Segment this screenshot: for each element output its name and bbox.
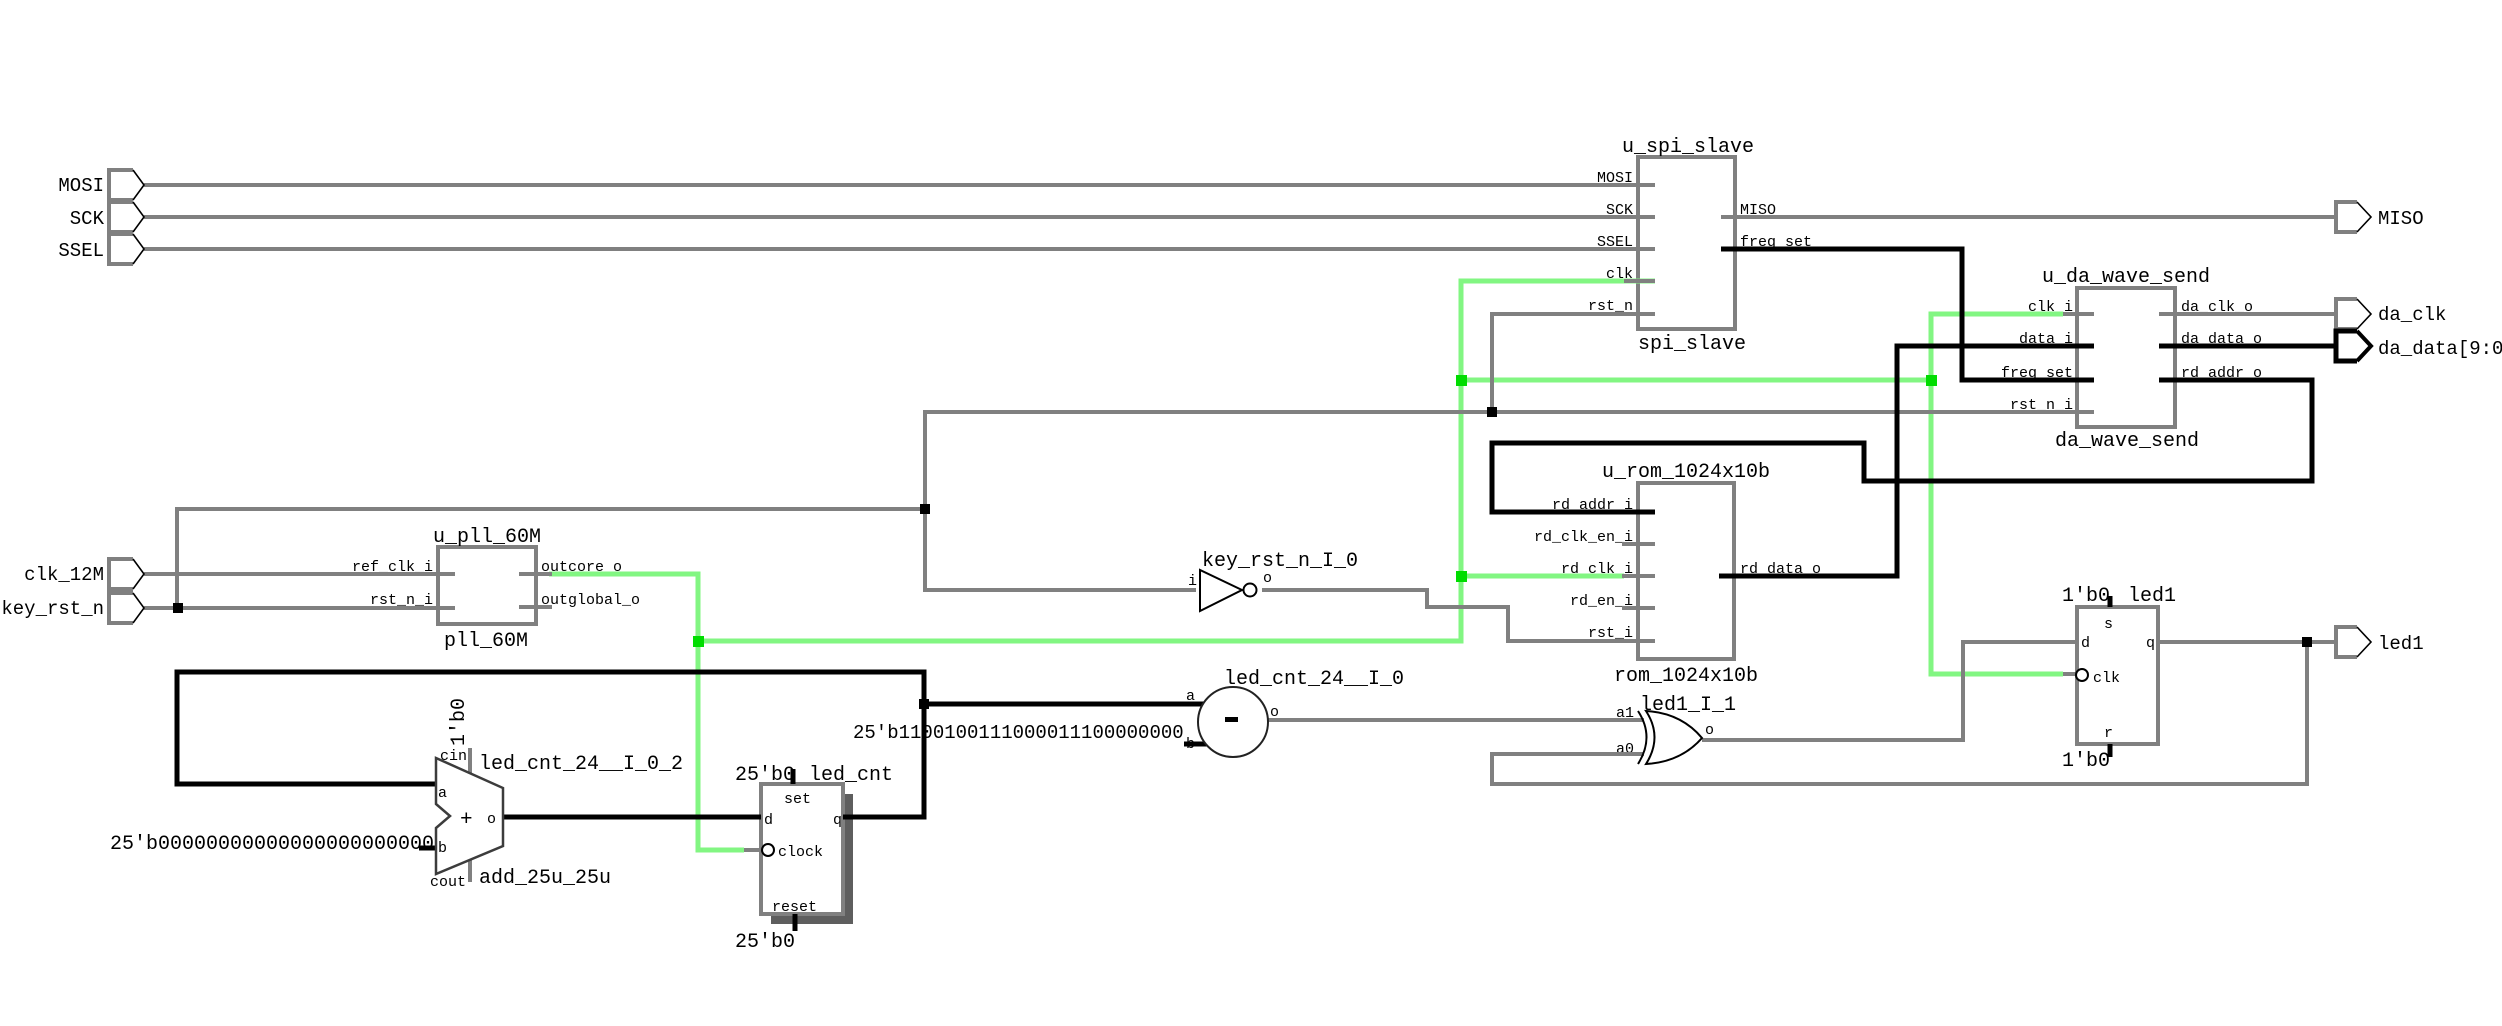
adder add_25u_25u body bbox=[436, 758, 503, 874]
clock wedge circle led1 bbox=[2076, 669, 2088, 681]
wire key_rst_n branch to spi rst_n bbox=[1492, 314, 1655, 412]
svg-text:o: o bbox=[1263, 570, 1272, 587]
wire clk net branch to led1 clk bbox=[1931, 380, 2063, 674]
module U1 u_spi_slave bbox=[1638, 157, 1735, 329]
input port SSEL bbox=[109, 234, 144, 264]
svg-text:u_rom_1024x10b: u_rom_1024x10b bbox=[1602, 461, 1770, 484]
wire spi clk stub bbox=[1624, 279, 1655, 283]
wire adder cout stub bbox=[468, 855, 472, 882]
comparator minus sign bbox=[1225, 717, 1238, 722]
wire clk net branch to rom rd_clk_i bbox=[1461, 574, 1624, 579]
output port da_clk bbox=[2336, 299, 2371, 329]
output port MISO bbox=[2336, 202, 2371, 232]
wire pll outcore_o stub bbox=[519, 572, 552, 576]
svg-text:MISO: MISO bbox=[2378, 208, 2424, 230]
comparator led_cnt_24__I_0 circle bbox=[1198, 687, 1268, 757]
label title u_spi_slave bbox=[1622, 136, 1754, 159]
wire rom rd_clk_en_i stub bbox=[1622, 542, 1655, 546]
svg-text:SCK: SCK bbox=[70, 208, 105, 230]
svg-text:outglobal_o: outglobal_o bbox=[541, 592, 640, 609]
svg-text:o: o bbox=[1705, 722, 1714, 739]
wire SSEL bbox=[144, 247, 1655, 251]
wire key_rst_n riser to spi and da bbox=[925, 412, 2094, 509]
svg-text:+: + bbox=[460, 809, 473, 832]
svg-text:clk: clk bbox=[2093, 670, 2120, 687]
stub register set constant bbox=[791, 769, 796, 784]
svg-text:cout: cout bbox=[430, 874, 466, 891]
svg-text:spi_slave: spi_slave bbox=[1638, 333, 1746, 356]
label constant 1'b0 rotated at adder cin bbox=[448, 698, 471, 746]
wire clk_12M to pll ref_clk_i bbox=[144, 572, 455, 576]
svg-text:o: o bbox=[487, 811, 496, 828]
svg-text:1'b0: 1'b0 bbox=[2062, 750, 2110, 773]
output port da_data bus bbox=[2336, 331, 2371, 361]
svg-text:clk_12M: clk_12M bbox=[24, 564, 104, 586]
pin labels led_cnt register bbox=[764, 791, 842, 916]
label title led_cnt_24__I_0_2 bbox=[479, 753, 683, 776]
input port key_rst_n bbox=[109, 593, 144, 623]
svg-text:led_cnt_24__I_0_2: led_cnt_24__I_0_2 bbox=[479, 753, 683, 776]
svg-text:cin: cin bbox=[440, 748, 467, 765]
pin labels adder bbox=[430, 748, 496, 891]
wire rom rd_clk_i stub bbox=[1622, 574, 1655, 578]
svg-text:add_25u_25u: add_25u_25u bbox=[479, 867, 611, 890]
junction clk green mid-north bbox=[1456, 375, 1467, 386]
input port MOSI bbox=[109, 170, 144, 200]
bus rd_data from rom to da data_i bbox=[1719, 346, 2094, 576]
svg-text:i: i bbox=[1188, 573, 1197, 590]
svg-text:q: q bbox=[2146, 635, 2155, 652]
label type add_25u_25u bbox=[479, 867, 611, 890]
pin labels da_wave_send left bbox=[2001, 299, 2073, 414]
svg-text:pll_60M: pll_60M bbox=[444, 630, 528, 653]
label constant 25'b0000000000000000000000001 bbox=[110, 833, 458, 856]
bus freq_set from spi to da_wave_send bbox=[1721, 249, 2094, 380]
inverter bubble bbox=[1244, 584, 1257, 597]
svg-text:u_da_wave_send: u_da_wave_send bbox=[2042, 266, 2210, 289]
svg-text:da_data[9:0]: da_data[9:0] bbox=[2378, 338, 2502, 360]
svg-text:b: b bbox=[438, 840, 447, 857]
svg-text:rd_clk_en_i: rd_clk_en_i bbox=[1534, 529, 1633, 546]
wire led1 clk stub bbox=[2063, 672, 2077, 676]
bus adder output to register d bbox=[503, 815, 761, 820]
output port led1 bbox=[2336, 627, 2371, 657]
label net led1 above ff bbox=[2128, 585, 2176, 608]
wire inverter output to rom rst_i bbox=[1262, 590, 1655, 641]
label constant 1'b0 above led1 ff bbox=[2062, 585, 2110, 608]
module U2 u_da_wave_send bbox=[2077, 288, 2175, 427]
wire led1 q to port bbox=[2158, 640, 2336, 644]
bus led_cnt q feedback loop bbox=[177, 672, 924, 817]
svg-text:rom_1024x10b: rom_1024x10b bbox=[1614, 665, 1758, 688]
stub led1 s constant bbox=[2108, 596, 2113, 607]
label title u_pll_60M bbox=[433, 526, 541, 549]
wire rom rd_en_i stub bbox=[1622, 606, 1655, 610]
flip-flop led1 bbox=[2077, 607, 2158, 744]
pin labels rom left bbox=[1534, 497, 1633, 642]
svg-text:u_spi_slave: u_spi_slave bbox=[1622, 136, 1754, 159]
wire adder cin stub bbox=[468, 748, 472, 775]
junction key_rst_n east bbox=[1487, 407, 1497, 417]
wire key_rst_n branch north bbox=[177, 509, 925, 608]
stub led1 r constant bbox=[2108, 744, 2113, 757]
junction led_cnt feedback bbox=[919, 699, 929, 709]
label title key_rst_n_I_0 bbox=[1202, 550, 1358, 573]
wire clk net from pll outcore_o bbox=[549, 574, 744, 850]
bus da_data_o to port bbox=[2159, 344, 2336, 349]
pin labels spi_slave left bbox=[1588, 170, 1633, 315]
label instance led_cnt bbox=[809, 764, 893, 787]
svg-text:led1: led1 bbox=[2378, 633, 2424, 655]
label type da_wave_send bbox=[2055, 430, 2199, 453]
label title led1_I_1 bbox=[1640, 694, 1736, 717]
bus comparator b constant stub bbox=[1184, 742, 1207, 747]
svg-text:clock: clock bbox=[778, 844, 823, 861]
junction clk green west bbox=[693, 636, 704, 647]
label title u_da_wave_send bbox=[2042, 266, 2210, 289]
junction key_rst_n mid bbox=[920, 504, 930, 514]
bus led_cnt to comparator a bbox=[924, 702, 1207, 707]
pin labels pll right bbox=[541, 559, 640, 609]
wire da_clk_o to port bbox=[2159, 312, 2336, 316]
label constant 25'b0 above led_cnt bbox=[735, 764, 795, 787]
bus adder b constant stub bbox=[419, 846, 437, 851]
port name labels right bbox=[2378, 208, 2502, 655]
svg-text:key_rst_n: key_rst_n bbox=[1, 598, 104, 620]
stub register reset constant bbox=[793, 914, 798, 931]
junction clk green mid-south bbox=[1456, 571, 1467, 582]
svg-text:1'b0: 1'b0 bbox=[448, 698, 471, 746]
wire clk net long horizontal to x1461 bbox=[698, 281, 1655, 641]
svg-text:SSEL: SSEL bbox=[58, 240, 104, 262]
label type pll_60M bbox=[444, 630, 528, 653]
clock wedge circle led_cnt bbox=[762, 844, 774, 856]
svg-text:s: s bbox=[2104, 616, 2113, 633]
wire key_rst_n to pll rst_n_i bbox=[144, 606, 455, 610]
label constant 25'b1100100111000011100000000 bbox=[853, 722, 1184, 744]
svg-text:d: d bbox=[764, 812, 773, 829]
pin labels xor bbox=[1616, 705, 1714, 758]
svg-text:a: a bbox=[438, 785, 447, 802]
svg-text:led1: led1 bbox=[2128, 585, 2176, 608]
junction led1 q bbox=[2302, 637, 2312, 647]
wire clk net branch east bbox=[1461, 314, 2063, 380]
pin labels spi_slave right bbox=[1740, 202, 1812, 251]
inverter key_rst_n_I_0 triangle bbox=[1200, 570, 1242, 611]
svg-text:set: set bbox=[784, 791, 811, 808]
pin labels da_wave_send right bbox=[2181, 299, 2262, 382]
xor gate led1_I_1 bbox=[1638, 711, 1702, 764]
label type rom_1024x10b bbox=[1614, 665, 1758, 688]
wire MOSI bbox=[144, 183, 1655, 187]
input port SCK bbox=[109, 202, 144, 232]
svg-text:1'b0: 1'b0 bbox=[2062, 585, 2110, 608]
module U3 u_rom_1024x10b bbox=[1638, 483, 1734, 659]
register led_cnt shadow bbox=[771, 794, 853, 924]
svg-text:25'b0: 25'b0 bbox=[735, 931, 795, 954]
wire key_rst_n branch to inverter input bbox=[925, 509, 1196, 590]
label type spi_slave bbox=[1638, 333, 1746, 356]
svg-text:25'b0: 25'b0 bbox=[735, 764, 795, 787]
svg-text:u_pll_60M: u_pll_60M bbox=[433, 526, 541, 549]
pin labels led1 ff bbox=[2081, 616, 2155, 742]
svg-text:da_wave_send: da_wave_send bbox=[2055, 430, 2199, 453]
junction key_rst_n at port bbox=[173, 603, 183, 613]
pin labels inverter bbox=[1188, 570, 1272, 590]
wire pll outglobal_o stub bbox=[519, 605, 552, 609]
bus rd_addr from da to rom bbox=[1492, 380, 2312, 512]
svg-text:d: d bbox=[2081, 635, 2090, 652]
svg-text:da_clk: da_clk bbox=[2378, 304, 2446, 326]
label constant 25'b0 below led_cnt bbox=[735, 931, 795, 954]
svg-text:q: q bbox=[833, 812, 842, 829]
wire SCK bbox=[144, 215, 1655, 219]
label title u_rom_1024x10b bbox=[1602, 461, 1770, 484]
pin labels comparator bbox=[1186, 688, 1279, 753]
svg-text:MOSI: MOSI bbox=[58, 175, 104, 197]
wire led_cnt clock stub bbox=[744, 848, 762, 852]
svg-text:25'b1100100111000011100000000: 25'b1100100111000011100000000 bbox=[853, 722, 1184, 744]
label title led_cnt_24__I_0 bbox=[1224, 668, 1404, 691]
wire xor output to led1 d bbox=[1702, 642, 2077, 740]
wire MISO from spi to port bbox=[1721, 215, 2336, 219]
wire xor a0 feedback from led1 q bbox=[1492, 642, 2307, 784]
svg-text:key_rst_n_I_0: key_rst_n_I_0 bbox=[1202, 550, 1358, 573]
svg-text:r: r bbox=[2104, 725, 2113, 742]
module U4 u_pll_60M bbox=[438, 547, 536, 624]
wire da clk_i stub bbox=[2063, 312, 2094, 316]
pin labels pll left bbox=[352, 559, 433, 609]
svg-text:led_cnt_24__I_0: led_cnt_24__I_0 bbox=[1224, 668, 1404, 691]
port name labels left bbox=[1, 175, 104, 620]
register led_cnt bbox=[761, 784, 843, 914]
svg-text:led_cnt: led_cnt bbox=[809, 764, 893, 787]
label constant 1'b0 below led1 ff bbox=[2062, 750, 2110, 773]
wire comparator output to xor a1 bbox=[1266, 718, 1644, 722]
junction clk green east bbox=[1926, 375, 1937, 386]
svg-text:25'b0000000000000000000000001: 25'b0000000000000000000000001 bbox=[110, 833, 458, 856]
pin label rom right rd_data_o bbox=[1740, 561, 1821, 578]
svg-text:reset: reset bbox=[772, 899, 817, 916]
input port clk_12M bbox=[109, 559, 144, 589]
